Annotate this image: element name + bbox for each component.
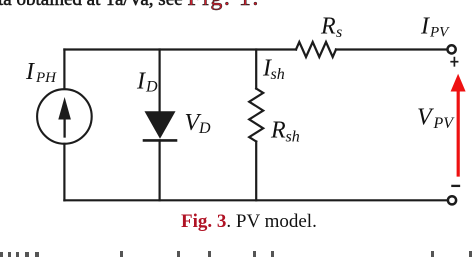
VPV red arrow shaft (457, 91, 460, 176)
svg-text:PV: PV (433, 115, 456, 132)
svg-text:D: D (198, 120, 211, 137)
figure caption (181, 212, 317, 231)
cropped body text line below figure (ascender tops) (0, 0, 474, 1)
wire: left branch upper stub (63, 50, 65, 90)
svg-text:I: I (420, 14, 430, 40)
label VD (185, 110, 212, 137)
cropped body text line above figure (0, 0, 260, 10)
wire: top rail from Rs to positive terminal (336, 48, 446, 50)
label VPV (417, 105, 455, 133)
resistor Rs (series) (296, 42, 336, 57)
diode D cathode bar (144, 139, 176, 142)
label Rs (320, 14, 342, 42)
wire: top rail from left corner to Rs (64, 48, 296, 50)
label ID (136, 69, 158, 96)
current source IPH circle (37, 89, 92, 144)
label IPV (420, 14, 450, 41)
node: negative output terminal (448, 196, 456, 204)
minus polarity mark (452, 185, 459, 187)
wire: diode branch lower (159, 140, 161, 200)
current source arrow shaft (63, 112, 65, 137)
svg-text:I: I (136, 69, 146, 95)
svg-text:s: s (336, 24, 342, 41)
label Ish (262, 56, 285, 84)
VPV red arrowhead (451, 74, 466, 92)
svg-text:PH: PH (35, 70, 57, 86)
svg-text:R: R (270, 118, 286, 144)
wire: diode branch upper (159, 50, 161, 112)
wire: shunt branch upper stub (255, 50, 257, 89)
diode D anode triangle (145, 111, 176, 139)
svg-text:sh: sh (271, 66, 285, 83)
svg-text:R: R (320, 14, 336, 40)
label IPH (25, 59, 57, 86)
svg-text:D: D (145, 79, 158, 96)
resistor Rsh (shunt) (249, 89, 263, 142)
wire: left branch lower stub (63, 144, 65, 201)
wire: bottom rail (64, 199, 447, 201)
node: positive output terminal (448, 45, 456, 53)
svg-text:sh: sh (286, 129, 300, 146)
wire: shunt branch lower stub (255, 142, 257, 201)
svg-text:PV: PV (429, 25, 450, 41)
plus polarity mark (451, 58, 457, 66)
svg-text:I: I (25, 59, 35, 85)
current source arrowhead (58, 97, 71, 120)
label Rsh (270, 118, 300, 146)
svg-text:V: V (417, 105, 434, 131)
